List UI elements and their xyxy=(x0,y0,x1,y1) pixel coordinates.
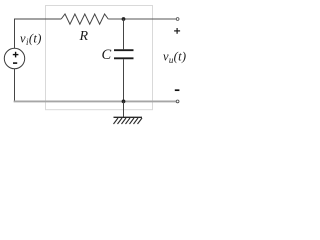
resistor R xyxy=(61,14,108,24)
plus sign output xyxy=(174,28,180,34)
svg-text:vu(t): vu(t) xyxy=(163,50,186,66)
wire resistor to output terminal xyxy=(108,18,176,20)
node dot top (R-C junction) xyxy=(122,17,126,21)
schematic frame box xyxy=(46,6,153,110)
wire source to bottom rail xyxy=(14,69,16,102)
svg-text:vi(t): vi(t) xyxy=(20,32,42,48)
wire cap top xyxy=(123,19,125,49)
wire top-left from source to resistor xyxy=(15,19,62,48)
ground bar xyxy=(114,116,143,118)
ground stem xyxy=(123,101,125,117)
svg-text:C: C xyxy=(102,47,112,63)
ground hatching xyxy=(114,118,143,124)
bottom rail wire xyxy=(14,100,177,102)
minus sign inside source xyxy=(13,62,17,64)
minus sign output xyxy=(175,89,180,91)
svg-text:R: R xyxy=(79,29,89,44)
plus sign inside source xyxy=(13,52,19,58)
terminal circle bottom right xyxy=(176,100,179,103)
wire cap bottom xyxy=(123,59,125,101)
terminal circle top right xyxy=(176,18,179,21)
voltage source V1 circle xyxy=(4,48,24,68)
node dot bottom (ground junction) xyxy=(122,100,126,104)
capacitor C plates xyxy=(114,50,134,58)
